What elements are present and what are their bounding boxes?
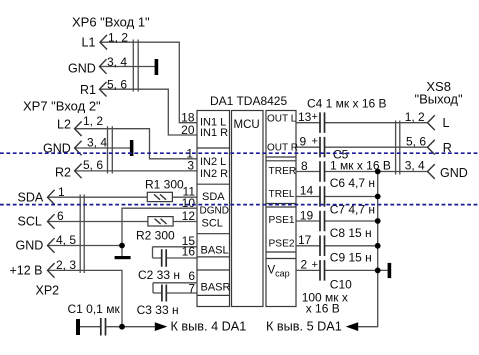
svg-text:5, 6: 5, 6	[406, 134, 426, 148]
svg-text:20: 20	[181, 123, 195, 137]
svg-text:К выв. 4 DA1: К выв. 4 DA1	[171, 320, 247, 334]
svg-text:Vcap: Vcap	[268, 264, 290, 278]
svg-text:IN1 R: IN1 R	[200, 127, 228, 139]
svg-text:+: +	[312, 259, 318, 271]
svg-text:SDA: SDA	[202, 191, 225, 203]
svg-text:GND: GND	[68, 62, 96, 76]
svg-text:+: +	[312, 135, 318, 147]
svg-text:SCL: SCL	[18, 215, 42, 229]
svg-text:OUT L: OUT L	[267, 114, 297, 125]
svg-text:C2 33 н: C2 33 н	[138, 268, 180, 282]
svg-text:4, 5: 4, 5	[56, 233, 76, 247]
svg-text:9: 9	[300, 134, 307, 148]
svg-text:SDA: SDA	[18, 190, 44, 204]
svg-text:R1: R1	[80, 83, 96, 97]
svg-text:+12 В: +12 В	[10, 264, 43, 278]
svg-text:TREL: TREL	[269, 189, 295, 200]
svg-text:3, 4: 3, 4	[107, 55, 127, 69]
svg-text:BASR: BASR	[201, 281, 231, 293]
svg-text:14: 14	[300, 184, 314, 198]
svg-text:2: 2	[301, 258, 308, 272]
svg-text:16: 16	[182, 244, 196, 258]
svg-text:7: 7	[188, 281, 195, 295]
svg-text:C8 15 н: C8 15 н	[330, 226, 372, 240]
svg-text:L2: L2	[57, 117, 71, 131]
svg-text:R2 300: R2 300	[136, 229, 175, 243]
svg-text:PSE1: PSE1	[269, 215, 295, 226]
svg-text:R2: R2	[55, 166, 71, 180]
svg-text:L1: L1	[82, 36, 96, 50]
svg-text:C9 15 н: C9 15 н	[330, 250, 372, 264]
svg-text:R1 300: R1 300	[145, 178, 184, 192]
svg-text:1, 2: 1, 2	[83, 114, 103, 128]
svg-text:GND: GND	[440, 166, 468, 180]
svg-text:1, 2: 1, 2	[108, 30, 128, 44]
svg-text:+: +	[312, 111, 318, 123]
svg-text:XP6 "Вход 1": XP6 "Вход 1"	[72, 14, 150, 29]
svg-text:5, 6: 5, 6	[83, 158, 103, 172]
svg-text:C1 0,1 мк: C1 0,1 мк	[68, 302, 121, 316]
svg-text:13: 13	[298, 110, 312, 124]
svg-text:6: 6	[57, 209, 64, 223]
svg-text:C3 33 н: C3 33 н	[137, 303, 179, 317]
svg-text:12: 12	[182, 209, 196, 223]
svg-text:XP7 "Вход 2": XP7 "Вход 2"	[23, 99, 101, 114]
svg-text:17: 17	[298, 233, 312, 247]
svg-text:3, 4: 3, 4	[87, 136, 107, 150]
svg-text:SCL: SCL	[202, 217, 223, 229]
svg-text:C10: C10	[330, 277, 352, 291]
svg-text:DGND: DGND	[200, 206, 229, 217]
svg-text:OUT R: OUT R	[267, 142, 298, 153]
svg-text:К выв. 5 DA1: К выв. 5 DA1	[266, 320, 342, 334]
svg-text:PSE2: PSE2	[269, 238, 295, 249]
svg-text:C4 1 мк х 16 В: C4 1 мк х 16 В	[307, 97, 387, 111]
svg-text:TRER: TRER	[269, 166, 297, 177]
svg-text:GND: GND	[16, 239, 44, 253]
svg-text:C6 4,7 н: C6 4,7 н	[330, 176, 375, 190]
svg-text:XP2: XP2	[36, 284, 60, 298]
svg-text:BASL: BASL	[201, 244, 229, 256]
svg-text:1 мк х 16 В: 1 мк х 16 В	[330, 158, 391, 172]
svg-text:L: L	[443, 116, 450, 130]
svg-text:3, 4: 3, 4	[405, 159, 425, 173]
svg-text:IN2 L: IN2 L	[200, 156, 226, 168]
svg-text:3: 3	[187, 159, 194, 173]
svg-text:MCU: MCU	[234, 119, 260, 131]
svg-text:8: 8	[301, 159, 308, 173]
svg-text:5, 6: 5, 6	[107, 77, 127, 91]
svg-text:х 16 В: х 16 В	[306, 302, 340, 316]
svg-text:19: 19	[300, 208, 314, 222]
svg-text:1, 2: 1, 2	[405, 110, 425, 124]
svg-text:IN2 R: IN2 R	[200, 168, 228, 180]
svg-text:"Выход": "Выход"	[415, 92, 464, 107]
svg-text:2, 3: 2, 3	[56, 258, 76, 272]
svg-text:DA1 TDA8425: DA1 TDA8425	[210, 94, 287, 108]
svg-text:1: 1	[58, 185, 65, 199]
